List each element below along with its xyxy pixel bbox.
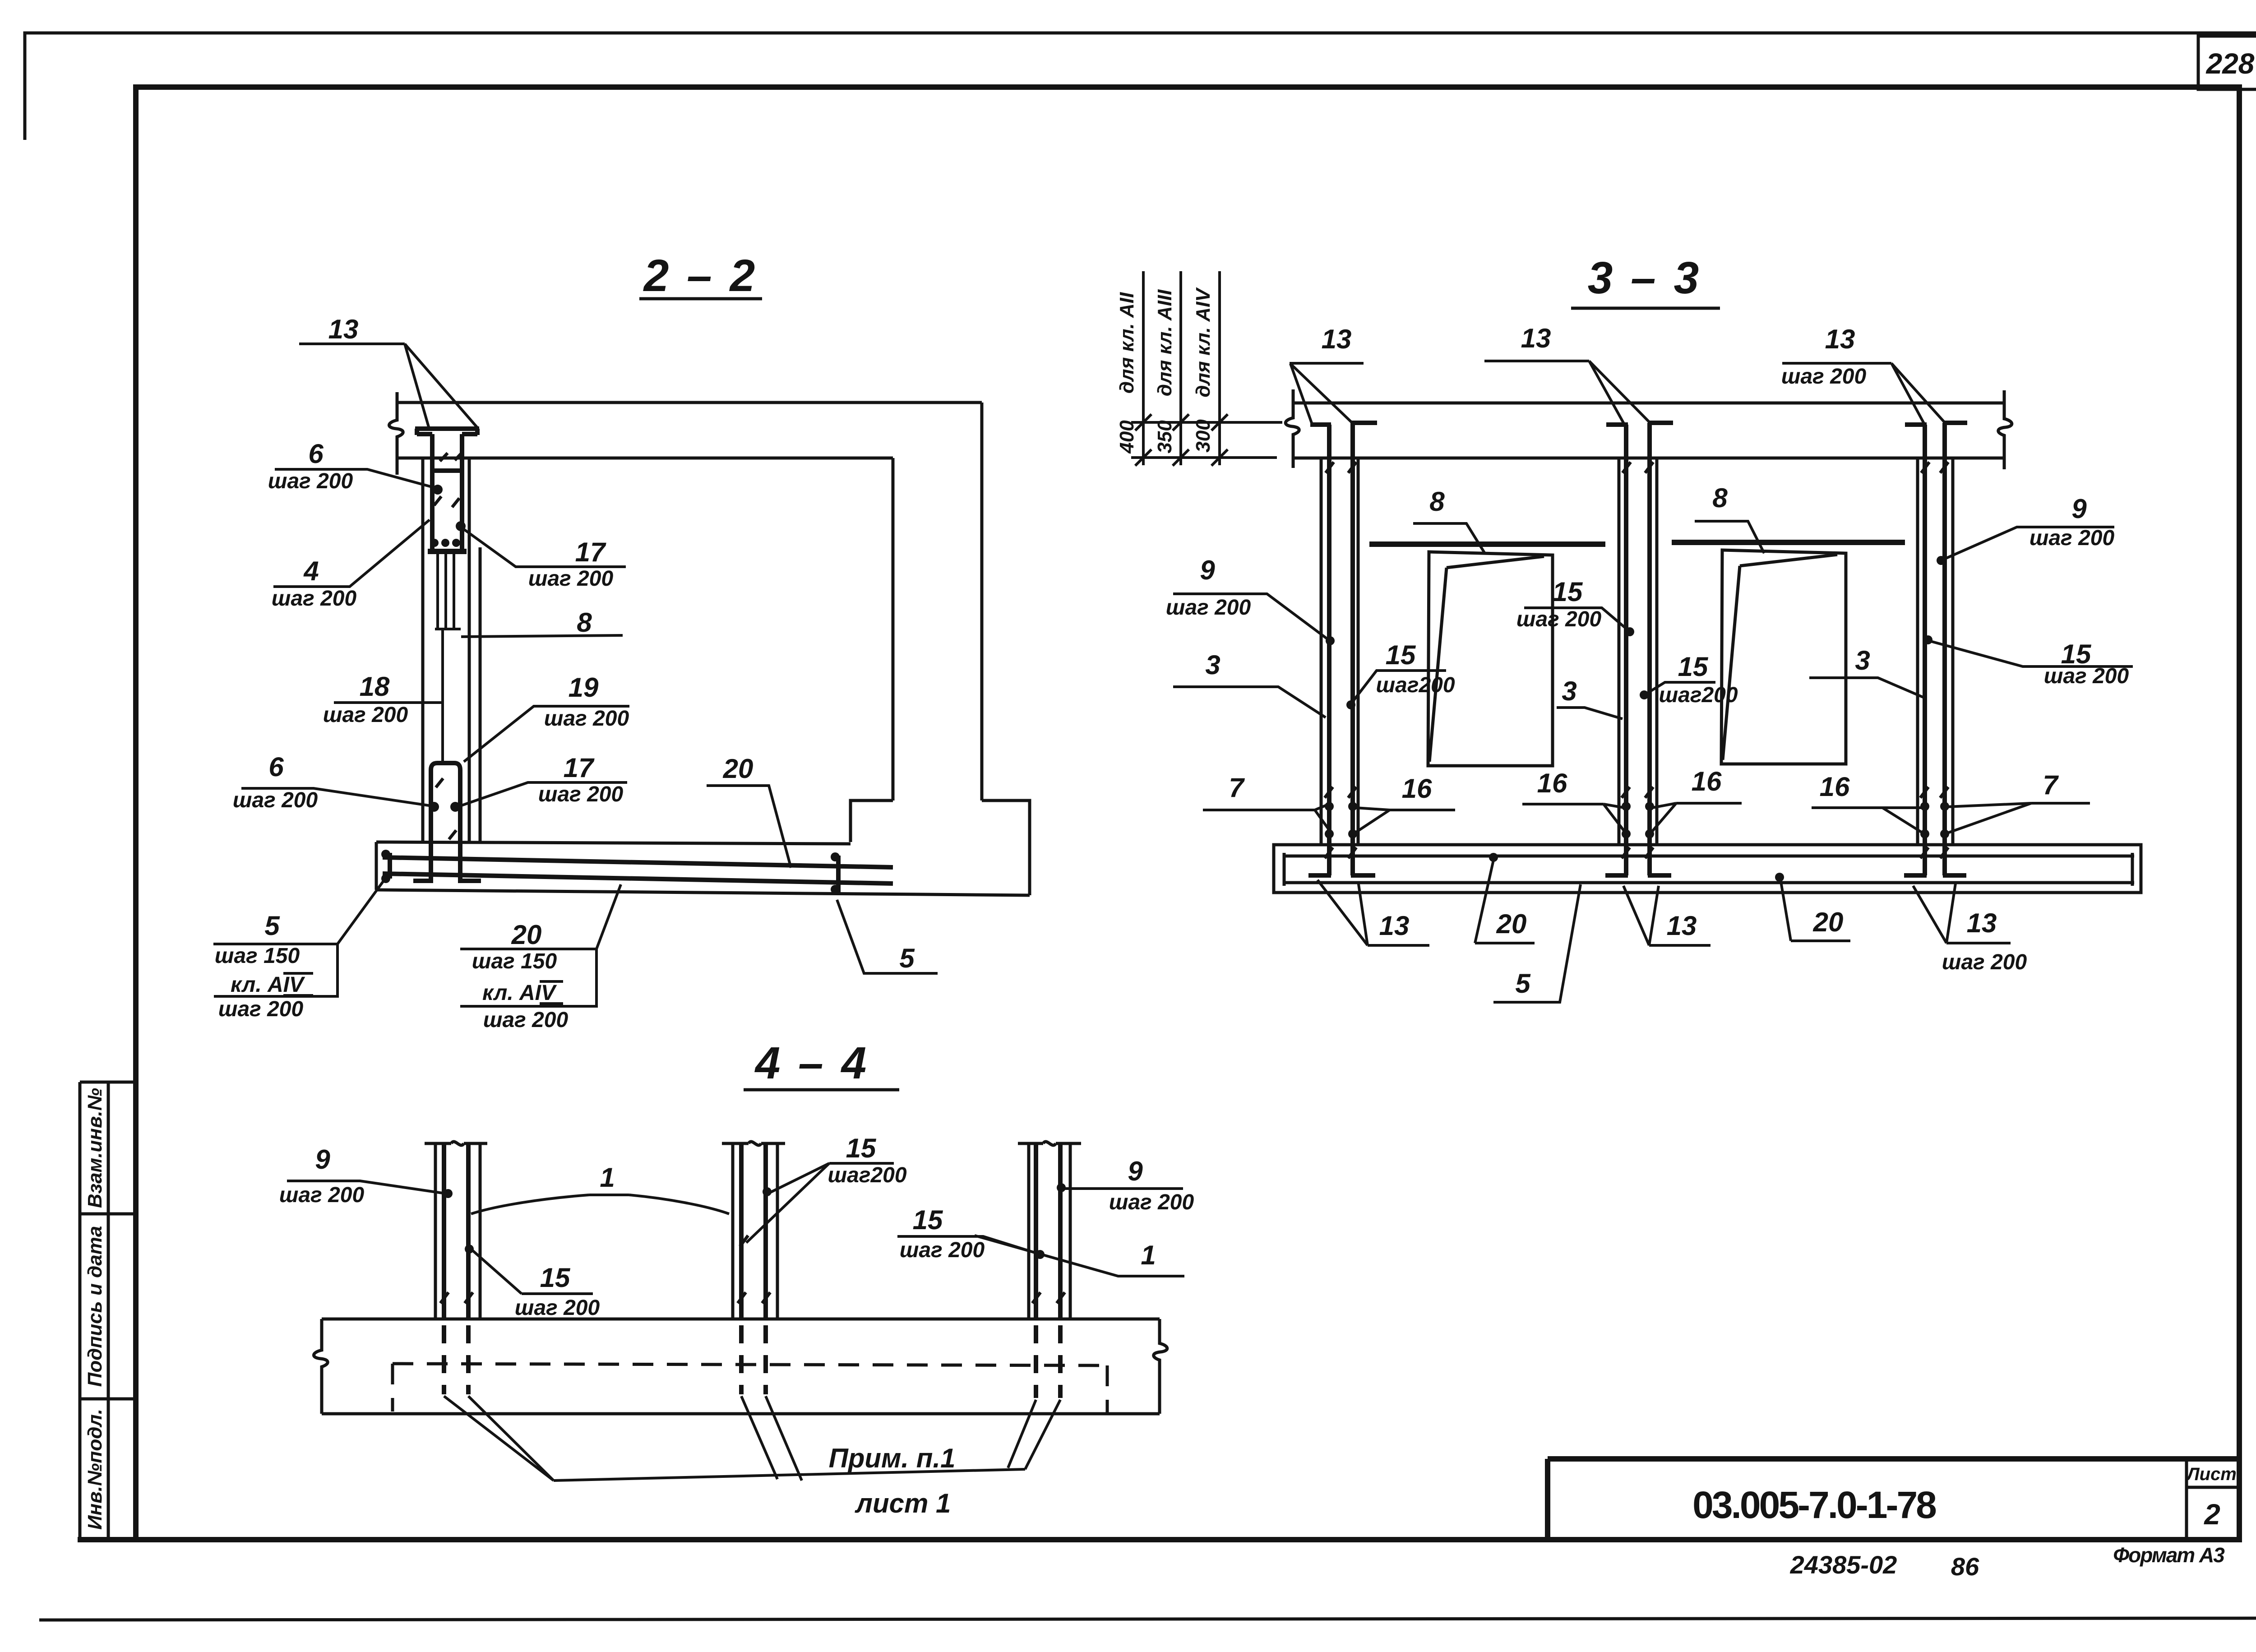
svg-text:шаг 200: шаг 200 [1781,365,1867,389]
svg-text:шаг 200: шаг 200 [483,1008,569,1032]
svg-text:15: 15 [1678,652,1709,682]
svg-text:8: 8 [1712,483,1728,513]
svg-text:кл. АIV: кл. АIV [482,981,557,1005]
svg-text:17: 17 [564,753,595,783]
svg-text:Взам.инв.№: Взам.инв.№ [84,1088,106,1208]
svg-text:20: 20 [1496,909,1527,939]
svg-text:шаг 200: шаг 200 [515,1296,600,1320]
svg-text:13: 13 [1322,324,1352,354]
svg-text:16: 16 [1402,773,1432,804]
svg-text:шаг 150: шаг 150 [472,949,557,973]
svg-text:15: 15 [1386,640,1416,670]
svg-text:шаг 150: шаг 150 [215,944,300,968]
svg-text:20: 20 [1813,907,1844,937]
svg-text:шаг200: шаг200 [1376,673,1455,697]
svg-text:лист 1: лист 1 [855,1488,951,1518]
svg-text:шаг 200: шаг 200 [233,788,318,812]
svg-text:шаг 200: шаг 200 [538,782,624,806]
svg-text:3: 3 [1205,650,1220,680]
svg-text:Прим. п.1: Прим. п.1 [829,1443,956,1473]
svg-text:13: 13 [1825,324,1855,354]
svg-text:17: 17 [575,537,606,567]
svg-text:шаг200: шаг200 [828,1163,906,1187]
svg-text:3 – 3: 3 – 3 [1588,253,1701,303]
svg-text:шаг 200: шаг 200 [900,1238,985,1262]
svg-text:шаг 200: шаг 200 [528,567,614,591]
svg-text:19: 19 [569,672,599,703]
svg-text:16: 16 [1537,768,1567,798]
svg-text:03.005-7.0-1-78: 03.005-7.0-1-78 [1692,1484,1936,1526]
svg-text:13: 13 [1667,911,1697,941]
svg-text:2: 2 [2204,1498,2220,1531]
svg-text:1: 1 [600,1162,615,1193]
svg-text:5: 5 [264,911,280,941]
svg-text:13: 13 [1521,323,1551,353]
svg-text:2 – 2: 2 – 2 [643,250,758,301]
svg-text:шаг 200: шаг 200 [268,469,353,493]
svg-text:шаг 200: шаг 200 [2029,526,2115,550]
svg-text:5: 5 [1515,968,1531,999]
svg-text:5: 5 [899,943,915,973]
svg-text:24385-02: 24385-02 [1790,1550,1897,1579]
svg-text:20: 20 [723,754,754,784]
svg-text:для кл. АIV: для кл. АIV [1192,287,1214,398]
svg-text:18: 18 [360,671,390,702]
svg-text:Лист: Лист [2186,1464,2237,1484]
svg-text:15: 15 [846,1133,877,1163]
svg-text:9: 9 [2071,494,2087,524]
svg-text:кл. АIV: кл. АIV [231,973,305,997]
svg-text:шаг 200: шаг 200 [1516,607,1602,631]
svg-text:13: 13 [1967,908,1997,938]
svg-text:шаг200: шаг200 [1659,683,1738,707]
svg-text:шаг 200: шаг 200 [218,997,304,1021]
svg-text:4 – 4: 4 – 4 [754,1038,869,1088]
svg-text:шаг 200: шаг 200 [1166,596,1251,620]
svg-text:350: 350 [1154,420,1176,453]
svg-text:300: 300 [1192,419,1214,453]
svg-text:7: 7 [2043,770,2059,800]
svg-text:6: 6 [308,439,324,469]
svg-text:16: 16 [1820,772,1850,802]
svg-text:8: 8 [1429,486,1445,517]
svg-text:шаг 200: шаг 200 [279,1183,365,1207]
svg-text:15: 15 [913,1205,943,1235]
svg-text:7: 7 [1229,773,1245,803]
svg-text:Формат А3: Формат А3 [2113,1543,2225,1567]
svg-text:шаг 200: шаг 200 [2044,664,2129,688]
svg-text:86: 86 [1951,1552,1979,1581]
svg-text:4: 4 [303,556,319,586]
svg-text:для кл. АIII: для кл. АIII [1154,289,1176,396]
svg-text:9: 9 [1200,555,1215,585]
svg-text:для кл. АII: для кл. АII [1116,292,1138,393]
svg-text:13: 13 [1379,911,1410,941]
svg-text:20: 20 [511,920,542,950]
svg-text:шаг 200: шаг 200 [544,707,629,731]
svg-text:228: 228 [2206,47,2255,80]
svg-text:1: 1 [1141,1240,1156,1270]
svg-text:шаг 200: шаг 200 [323,703,408,727]
svg-text:3: 3 [1562,676,1576,706]
svg-text:400: 400 [1116,420,1138,454]
svg-text:шаг 200: шаг 200 [1109,1190,1194,1214]
svg-text:Подпись и дата: Подпись и дата [84,1226,106,1387]
svg-text:15: 15 [540,1263,571,1293]
svg-text:15: 15 [1553,577,1583,607]
svg-text:9: 9 [315,1144,330,1175]
svg-text:16: 16 [1692,766,1722,796]
svg-text:9: 9 [1128,1156,1143,1186]
svg-text:шаг 200: шаг 200 [272,587,357,611]
svg-text:шаг 200: шаг 200 [1942,950,2027,974]
svg-text:13: 13 [328,314,359,344]
svg-text:8: 8 [577,607,592,638]
svg-text:Инв.№подл.: Инв.№подл. [84,1409,106,1530]
svg-text:6: 6 [268,752,284,782]
svg-text:3: 3 [1855,645,1870,676]
